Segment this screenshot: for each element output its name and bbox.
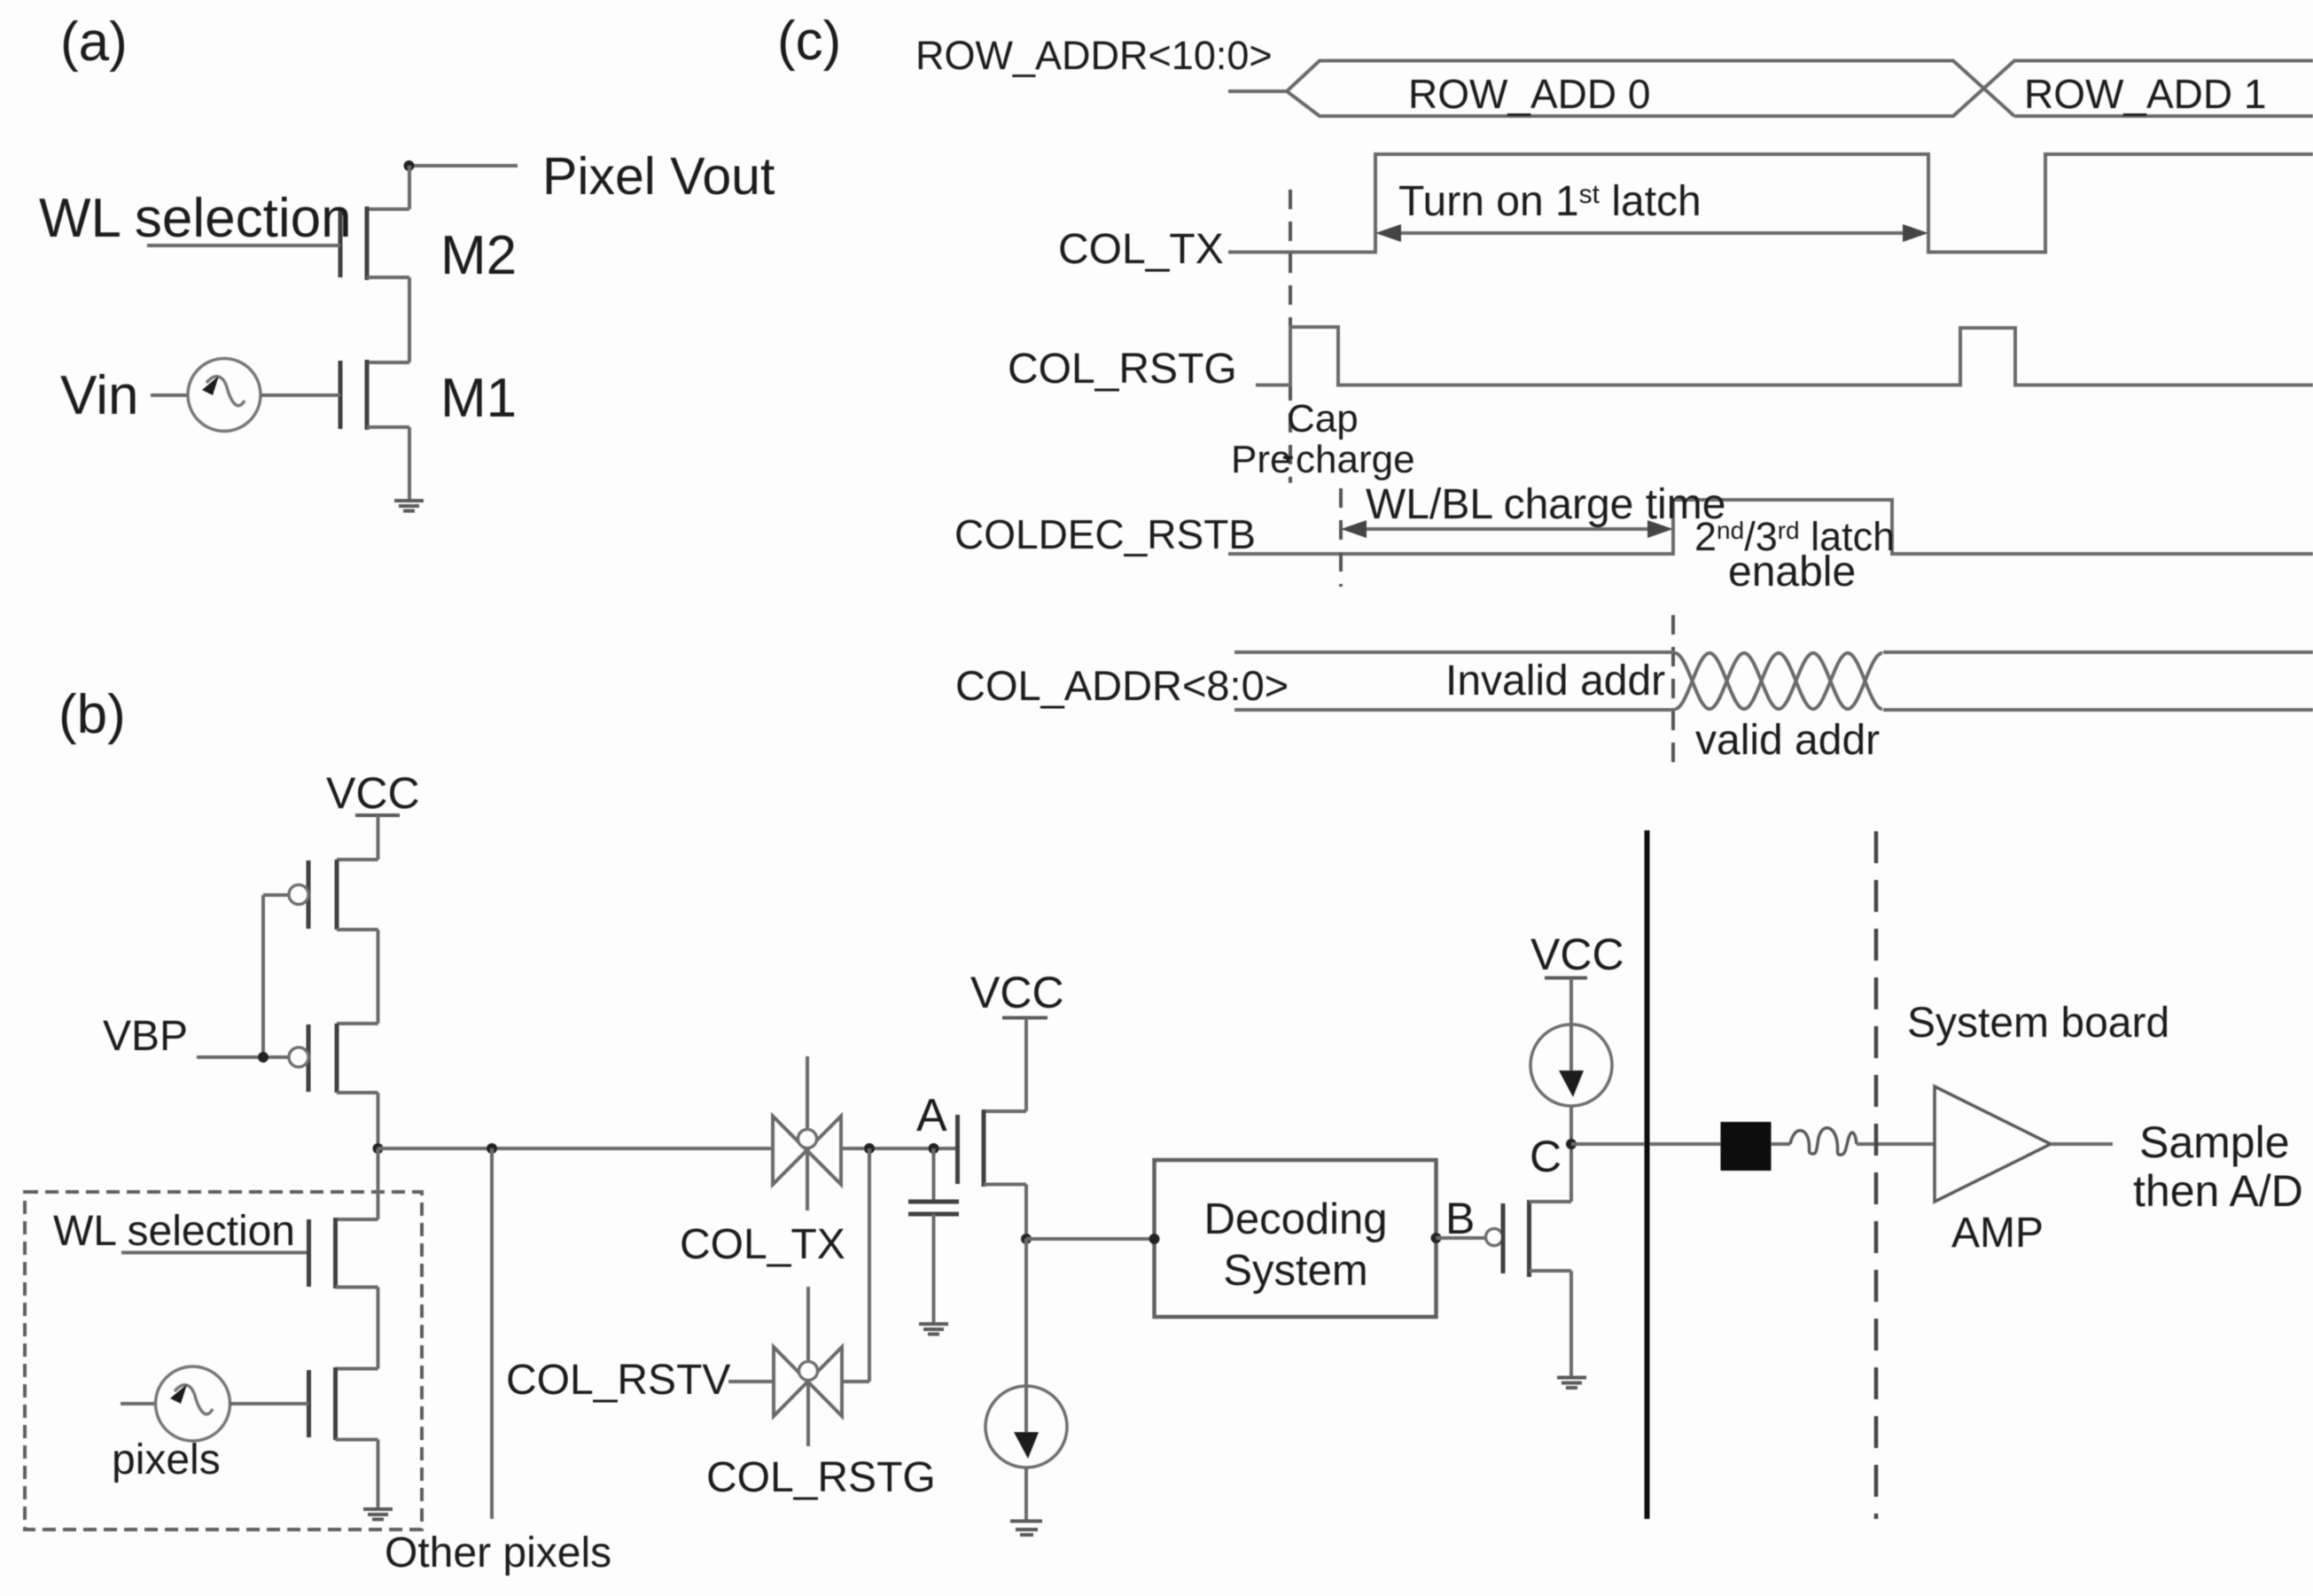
transistor M2 bbox=[340, 206, 409, 280]
svg-text:then A/D: then A/D bbox=[2133, 1166, 2303, 1216]
wire WL selection to M2 gate bbox=[147, 244, 340, 247]
chip boundary bold line bbox=[1645, 830, 1650, 1519]
svg-text:pixels: pixels bbox=[112, 1436, 221, 1483]
svg-text:COLDEC_RSTB: COLDEC_RSTB bbox=[954, 511, 1256, 557]
svg-text:enable: enable bbox=[1728, 549, 1856, 596]
wire current source to node C bbox=[1569, 1106, 1573, 1202]
wire WL selection to gate bbox=[121, 1251, 309, 1255]
wire COL_RSTV out bbox=[842, 1380, 869, 1383]
wire VCC to current source bbox=[1569, 978, 1573, 1031]
svg-text:ROW_ADD 1: ROW_ADD 1 bbox=[2024, 71, 2266, 117]
svg-text:COL_ADDR<8:0>: COL_ADDR<8:0> bbox=[955, 662, 1289, 709]
svg-text:COL_RSTG: COL_RSTG bbox=[706, 1454, 936, 1501]
wire other pixels column bbox=[490, 1148, 494, 1519]
svg-text:System: System bbox=[1223, 1247, 1367, 1295]
wire VCC to PMOS1 bbox=[377, 815, 380, 860]
signal COL_RSTG waveform bbox=[1256, 327, 2313, 385]
svg-text:C: C bbox=[1530, 1132, 1561, 1181]
dashed line WL/BL start bbox=[1339, 488, 1343, 587]
source current source I1 bbox=[985, 1386, 1067, 1468]
source V1 sine voltage source bbox=[188, 359, 261, 432]
wire gate tie Q1 bbox=[263, 893, 289, 897]
wire VBP to gates bbox=[197, 1055, 289, 1059]
svg-text:Pixel Vout: Pixel Vout bbox=[542, 147, 775, 206]
wire Q1 drain to Q2 source bbox=[377, 930, 380, 1024]
transmission gate COL_RSTV bbox=[774, 1287, 842, 1446]
node other-pixels junction dot bbox=[487, 1143, 497, 1154]
block Decoding System box bbox=[1155, 1160, 1437, 1317]
wire source to M1 gate bbox=[261, 393, 340, 397]
wire follower source down bbox=[1024, 1185, 1028, 1240]
wire RSTV riser bbox=[868, 1148, 871, 1382]
signal COL_TX waveform bbox=[1228, 154, 2313, 253]
node RSTV tap junction dot bbox=[864, 1143, 875, 1154]
svg-text:COL_RSTV: COL_RSTV bbox=[506, 1357, 730, 1404]
svg-text:VCC: VCC bbox=[970, 968, 1064, 1017]
svg-text:B: B bbox=[1445, 1194, 1475, 1243]
transistor pixel source NMOS bbox=[309, 1367, 378, 1440]
node VBP junction dot bbox=[258, 1052, 269, 1063]
wire B to PMOS gate bbox=[1437, 1236, 1486, 1240]
pad black square bbox=[1721, 1122, 1772, 1171]
wire COL_TX out to node A bbox=[841, 1147, 958, 1150]
capacitor C1 bbox=[908, 1148, 959, 1323]
board boundary dashed line bbox=[1874, 831, 1879, 1519]
wire column bus horizontal bbox=[378, 1147, 774, 1150]
wire pad to resistor bbox=[1772, 1142, 1791, 1146]
node drain junction dot bbox=[404, 160, 415, 171]
wire resistor to AMP bbox=[1857, 1142, 1935, 1146]
svg-text:ROW_ADDR<10:0>: ROW_ADDR<10:0> bbox=[915, 33, 1273, 78]
svg-text:Cap: Cap bbox=[1287, 397, 1359, 440]
ground (panel a) bbox=[394, 501, 424, 511]
svg-text:Invalid addr: Invalid addr bbox=[1445, 658, 1665, 705]
dimension arrow turn-on 1st latch bbox=[1375, 224, 1928, 242]
svg-text:(b): (b) bbox=[58, 684, 126, 745]
svg-text:A: A bbox=[916, 1090, 947, 1141]
transistor source follower NMOS bbox=[958, 1109, 1027, 1187]
svg-text:VCC: VCC bbox=[1530, 930, 1624, 979]
transistor PMOS Q2 (current mirror bottom) bbox=[289, 1024, 378, 1093]
wire Pixel Vout bbox=[409, 164, 518, 167]
svg-text:ROW_ADD 0: ROW_ADD 0 bbox=[1408, 71, 1650, 117]
wire M2 drain riser bbox=[408, 166, 411, 209]
wire Vin to source bbox=[151, 393, 189, 397]
svg-text:M1: M1 bbox=[440, 368, 517, 429]
svg-text:COL_TX: COL_TX bbox=[680, 1221, 845, 1268]
wire ROW_ADDR lead-in bbox=[1228, 90, 1287, 93]
ground (capacitor) bbox=[919, 1324, 948, 1335]
svg-text:Vin: Vin bbox=[60, 365, 139, 426]
svg-text:valid addr: valid addr bbox=[1695, 717, 1880, 764]
node follower out junction dot bbox=[1021, 1234, 1032, 1244]
ground (pixel cell) bbox=[363, 1509, 393, 1520]
svg-text:Other pixels: Other pixels bbox=[385, 1530, 611, 1577]
svg-text:COL_TX: COL_TX bbox=[1058, 226, 1224, 273]
bus COL_ADDR valid section bbox=[1883, 652, 2313, 710]
wire M1 source down bbox=[408, 427, 411, 500]
ground (current source) bbox=[1010, 1522, 1042, 1536]
op-amp AMP triangle bbox=[1935, 1086, 2051, 1202]
power VCC rail bar bbox=[355, 814, 400, 817]
transistor output PMOS Q3 bbox=[1486, 1200, 1572, 1277]
svg-text:charge: charge bbox=[1296, 438, 1415, 481]
svg-text:AMP: AMP bbox=[1951, 1210, 2044, 1257]
svg-text:COL_RSTG: COL_RSTG bbox=[1008, 346, 1237, 393]
svg-text:WL selection: WL selection bbox=[39, 188, 352, 249]
svg-text:System board: System board bbox=[1907, 1000, 2169, 1047]
svg-text:VBP: VBP bbox=[103, 1013, 188, 1060]
dashed line cap precharge bbox=[1289, 190, 1292, 483]
svg-text:VCC: VCC bbox=[326, 768, 420, 818]
signal COLDEC_RSTB waveform bbox=[1228, 500, 2313, 554]
wire pixel source to ground bbox=[377, 1440, 380, 1509]
svg-text:Turn on 1st latch: Turn on 1st latch bbox=[1398, 178, 1702, 225]
svg-text:WL/BL charge time: WL/BL charge time bbox=[1366, 481, 1725, 528]
bus COL_ADDR invalid section bbox=[1234, 652, 1675, 710]
wire Q2 drain to bus bbox=[377, 1093, 380, 1148]
transistor M1 bbox=[340, 360, 409, 430]
wire AMP output bbox=[2051, 1142, 2113, 1146]
wire node C to pad bbox=[1571, 1142, 1721, 1146]
node ROW_ADD 0 bus valid shape bbox=[1287, 61, 2313, 117]
svg-text:M2: M2 bbox=[440, 225, 517, 286]
svg-text:Sample: Sample bbox=[2139, 1117, 2290, 1167]
svg-text:Decoding: Decoding bbox=[1203, 1195, 1387, 1243]
wire Q3 drain to ground bbox=[1569, 1271, 1573, 1376]
wire between pixel NMOS bbox=[377, 1288, 380, 1369]
node B junction dot bbox=[1431, 1233, 1442, 1243]
wire follower out to decoding box bbox=[1026, 1237, 1155, 1241]
svg-text:(c): (c) bbox=[777, 11, 841, 72]
transistor pixel select NMOS bbox=[309, 1218, 378, 1288]
power VCC follower bar bbox=[1002, 1016, 1047, 1020]
node A junction dot bbox=[929, 1143, 939, 1154]
wire bus into pixel drain bbox=[377, 1148, 380, 1219]
ground (Q3) bbox=[1557, 1378, 1586, 1389]
node box input dot bbox=[1149, 1234, 1160, 1244]
resistor bond wire squiggle bbox=[1790, 1128, 1857, 1155]
source current source I2 bbox=[1530, 1024, 1612, 1106]
node column bus junction dot bbox=[373, 1143, 384, 1154]
node C junction dot bbox=[1566, 1139, 1577, 1149]
svg-text:WL selection: WL selection bbox=[53, 1208, 295, 1255]
wire VCC to follower drain bbox=[1024, 1018, 1028, 1112]
dimension arrow WL/BL charge time bbox=[1341, 520, 1673, 538]
power VCC right bar bbox=[1545, 977, 1587, 980]
wire gate bus vertical bbox=[261, 895, 265, 1057]
bus COL_ADDR transition crosshatch bbox=[1675, 653, 1882, 709]
dashed line valid addr start bbox=[1671, 615, 1675, 774]
svg-text:(a): (a) bbox=[60, 12, 128, 73]
source pixel signal source bbox=[121, 1366, 309, 1441]
wire COL_RSTV lead bbox=[728, 1380, 774, 1383]
pixel cell dashed box bbox=[25, 1192, 422, 1530]
transmission gate COL_TX bbox=[773, 1056, 841, 1211]
transistor PMOS Q1 (current mirror top) bbox=[289, 860, 378, 930]
wire M2 source to M1 drain bbox=[408, 277, 411, 362]
wire current source to ground bbox=[1024, 1468, 1028, 1520]
wire follower to current source bbox=[1024, 1239, 1028, 1387]
svg-text:-: - bbox=[1281, 433, 1295, 477]
